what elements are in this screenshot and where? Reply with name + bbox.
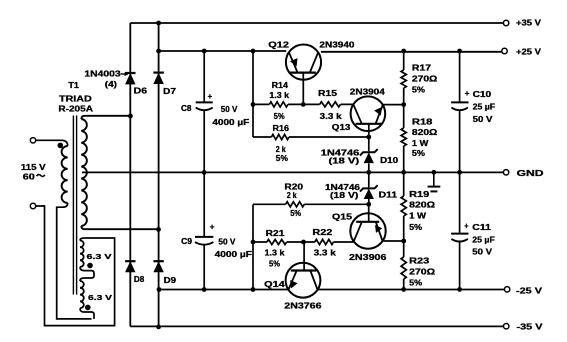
svg-text:+: + [210,222,215,231]
svg-text:5%: 5% [412,86,425,95]
junction C8 top [202,49,207,54]
transformer 6.3V winding B [80,281,84,308]
svg-text:5%: 5% [269,260,280,269]
terminal -25 V [504,287,509,292]
terminal +25 V [502,48,507,53]
svg-text:4000 µF: 4000 µF [212,118,249,127]
wire D11 to Q15 base junction [368,199,370,205]
wire input bottom around transformer box [36,206,115,326]
junction D7 top rail [156,21,161,26]
svg-text:25 µF: 25 µF [472,235,495,244]
svg-text:+: + [465,89,470,98]
svg-text:4000 µF: 4000 µF [215,250,252,259]
transistor Q13 [351,96,386,137]
wire Q15 emitter to R19/R23 [383,240,404,242]
resistor R14 1.3k [269,102,288,107]
svg-text:270Ω: 270Ω [409,268,436,277]
svg-text:D10: D10 [380,156,399,165]
wire R23 leads [403,241,405,289]
wire primary bottom return [57,203,92,319]
junction ground symbol [431,170,436,175]
capacitor C11 wire lower [459,242,461,289]
svg-text:C9: C9 [181,237,193,246]
junction secondary top / D6 [128,114,133,119]
label AC tilde [37,175,45,177]
svg-text:+25 V: +25 V [516,48,542,57]
wire center-tap / GND rail [82,171,504,173]
svg-text:R19: R19 [409,190,430,199]
resistor R18 820 [401,128,406,146]
wire R19 leads [403,172,405,241]
junction Q12 base / R14-R15 [301,102,306,107]
junction D11 / Q15 base / R20 [366,202,371,207]
resistor R16 2k [271,134,289,139]
wire Q13 emitter to R17/R18 [383,104,404,106]
svg-text:3.3 k: 3.3 k [314,248,337,257]
svg-text:50 V: 50 V [472,248,493,257]
svg-text:50 V: 50 V [218,238,236,247]
transformer 6.3V winding A [80,241,84,267]
wire D10 to GND rail [368,163,370,172]
capacitor C9 wire lower [203,245,205,289]
capacitor C8 wire lower [203,111,205,236]
resistor R23 270 [401,257,406,279]
wire GND to D11 [368,172,370,187]
wire R21 leads [253,241,304,243]
terminal input bottom [30,203,35,208]
wire R17 leads [403,51,405,105]
svg-text:820Ω: 820Ω [409,201,436,210]
svg-text:6.3 V: 6.3 V [88,293,112,302]
diode D8 1N4003 [125,260,135,262]
svg-text:+35 V: +35 V [516,18,542,27]
capacitor C11 wire upper [459,172,461,232]
svg-text:R18: R18 [412,118,433,127]
svg-text:Q14: Q14 [264,280,285,289]
capacitor C10 wire lower [459,111,461,173]
transformer phase dot 6.3V A [87,263,93,269]
junction R20/R21 bottom [251,287,256,292]
svg-text:R17: R17 [412,63,432,72]
svg-text:5%: 5% [276,154,288,163]
svg-text:-25 V: -25 V [516,287,543,296]
svg-text:1N4003: 1N4003 [84,69,121,78]
wire unregulated negative to Q14 [159,289,289,291]
wire Q12 emitter to +25 V terminal [321,51,502,53]
terminal +35 V [503,20,508,25]
svg-text:5%: 5% [409,223,422,232]
svg-text:D8: D8 [134,275,145,284]
wire D7/D9 vertical branch [158,23,160,327]
svg-text:60: 60 [23,173,36,182]
wire Q13 base junction to D10 [368,137,370,151]
ground symbol [433,172,435,186]
svg-text:2N3940: 2N3940 [319,41,355,50]
resistor R22 3.3k [315,239,334,244]
svg-text:+: + [464,222,468,231]
resistor R20 2k [286,202,305,207]
svg-text:(4): (4) [105,80,118,89]
junction D9 / negative line [157,287,162,292]
transistor Q14 [286,242,321,298]
capacitor C8 [196,101,213,103]
capacitor C11 [451,233,468,235]
wire R18 leads [403,105,405,173]
junction R23 bottom [401,287,406,292]
junction R17 top [401,49,406,54]
svg-text:50 V: 50 V [221,105,238,114]
resistor R17 270 [401,70,406,88]
svg-text:115 V: 115 V [21,163,46,172]
svg-text:GND: GND [517,169,544,178]
transformer core [73,116,76,295]
svg-text:R23: R23 [409,256,430,265]
svg-text:(18 V): (18 V) [330,191,359,200]
junction secondary bottom / D9 [156,227,161,232]
svg-text:C10: C10 [473,90,492,99]
junction C10 top [457,49,462,54]
transformer 6.3V winding A lead-in [80,238,84,241]
junction Q14 base / R21-R22 [301,240,306,245]
wire R22 leads [304,241,355,243]
transformer phase dot 6.3V B [85,305,91,311]
junction R18/R19 GND [401,170,406,175]
svg-text:1 W: 1 W [412,139,429,148]
junction C10/C11 GND [457,170,462,175]
junction Q15 / R19 / R23 [401,239,406,244]
wire input top to primary [36,140,68,146]
svg-text:Q13: Q13 [332,123,351,132]
wire unregulated positive to Q12 collector [159,50,287,52]
wire R14/R16 feed vertical [252,51,254,137]
junction R21 left [251,240,256,245]
svg-text:D9: D9 [164,276,177,285]
terminal -35 V [504,324,509,329]
junction C9 bottom [202,287,207,292]
svg-text:D11: D11 [379,190,398,199]
junction R14 left [251,102,256,107]
svg-text:C11: C11 [472,223,491,232]
svg-text:2N3906: 2N3906 [349,253,387,262]
terminal GND [503,170,508,175]
svg-text:1.3 k: 1.3 k [269,91,289,100]
svg-text:(18 V): (18 V) [329,157,360,166]
transformer T1 primary winding [62,146,68,203]
junction C8/C9 GND [202,170,207,175]
diode D9 1N4003 [153,260,163,262]
transformer phase dot primary [58,143,64,149]
svg-text:R20: R20 [284,182,303,191]
wire R16 leads [253,136,369,138]
capacitor C9 [195,236,213,238]
wire R14 leads [253,103,303,105]
diode D7 1N4003 [153,71,163,73]
svg-text:2 k: 2 k [287,191,297,200]
svg-text:R21: R21 [266,229,285,238]
junction unreg positive takeoff [156,49,161,54]
svg-text:R-205A: R-205A [58,104,93,113]
svg-text:3.3 k: 3.3 k [320,112,343,121]
svg-text:6.3 V: 6.3 V [87,252,112,261]
svg-text:2N3904: 2N3904 [350,87,386,96]
svg-text:5%: 5% [274,112,285,121]
svg-text:Q15: Q15 [332,212,353,221]
wire Q14 to -25 V terminal [317,289,504,291]
svg-text:1.3 k: 1.3 k [265,248,286,257]
transformer T1 main secondary winding [81,119,87,226]
resistor R21 1.3k [267,239,287,244]
zener diode D11 1N4746 [360,185,378,191]
capacitor C10 [451,101,468,103]
svg-text:2N3766: 2N3766 [284,302,322,311]
wire secondary bottom to D7/D9 branch [81,226,158,229]
zener diode D10 1N4746 [360,149,378,155]
wire R20 leads [253,203,369,205]
junction C11 bottom [457,287,462,292]
junction Q13 / R17 / R18 [401,102,406,107]
transformer 6.3V winding B tail [80,308,94,319]
junction R16 / Q13 base / D10 [366,135,371,140]
wire R20/R21 feed vertical [252,204,254,289]
svg-text:C8: C8 [181,104,192,113]
svg-text:R16: R16 [273,124,290,133]
junction D9 / -35 rail [156,325,161,330]
svg-text:+: + [208,92,213,101]
svg-text:Q12: Q12 [268,41,289,50]
svg-text:TRIAD: TRIAD [59,94,92,103]
diode D6 1N4003 [125,72,135,74]
svg-text:-35 V: -35 V [517,323,544,332]
wire +35 V top rail [130,22,503,24]
transistor Q12 [286,45,321,105]
svg-text:T1: T1 [68,81,79,90]
junction R14/R16 feed [251,49,256,54]
svg-text:D7: D7 [163,87,177,96]
svg-text:50 V: 50 V [473,115,494,124]
wire D6/D8 vertical branch [129,23,131,326]
svg-text:2 k: 2 k [276,145,286,154]
terminal input top [30,138,35,143]
wire -35 V bottom rail [130,325,503,327]
svg-text:5%: 5% [409,279,422,288]
svg-text:270Ω: 270Ω [412,75,438,84]
wire secondary top to D6 branch [81,116,130,119]
transformer 6.3V winding A jog [80,267,94,281]
svg-text:5%: 5% [412,149,425,158]
svg-text:R22: R22 [312,228,333,237]
capacitor C10 wire upper [459,51,461,101]
svg-text:25 µF: 25 µF [473,102,496,111]
wire R15 leads [303,103,354,105]
svg-text:D6: D6 [134,86,148,95]
resistor R15 3.3k [320,102,341,107]
resistor R19 820 [401,196,406,216]
svg-text:820Ω: 820Ω [412,128,438,137]
transistor Q15 [350,204,385,248]
svg-text:R15: R15 [318,89,338,98]
svg-text:R14: R14 [272,81,289,90]
svg-text:1 W: 1 W [409,212,427,221]
svg-text:5%: 5% [290,209,301,218]
junction D10/D11 GND [366,170,371,175]
pointer 1N4003 to D6 [121,73,127,75]
capacitor C8 wire upper [203,51,205,101]
